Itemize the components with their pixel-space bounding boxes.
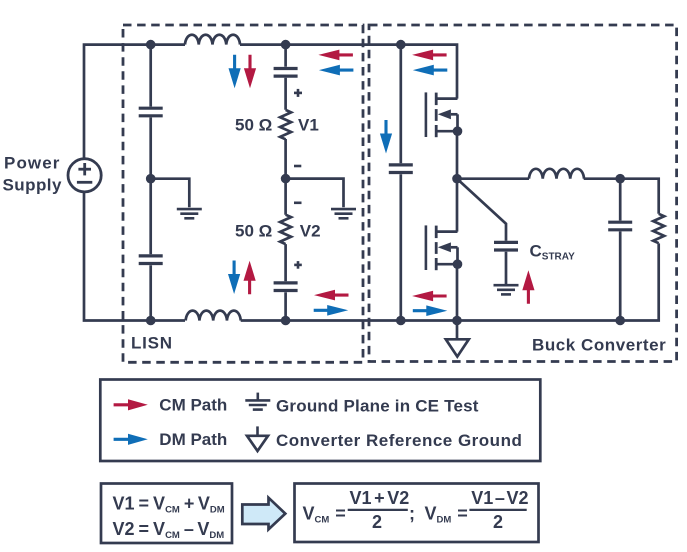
svg-text:V1+V2: V1+V2 (350, 488, 410, 508)
svg-text:Converter Reference Ground: Converter Reference Ground (276, 431, 522, 450)
svg-text:Supply: Supply (3, 176, 62, 195)
svg-text:CM Path: CM Path (159, 395, 227, 414)
svg-text:2: 2 (493, 512, 503, 532)
svg-text:Power: Power (4, 153, 61, 172)
svg-text:;: ; (409, 504, 415, 524)
svg-text:Buck Converter: Buck Converter (532, 335, 666, 354)
svg-text:V2: V2 (300, 222, 321, 241)
svg-text:50 Ω: 50 Ω (235, 116, 272, 135)
svg-text:50 Ω: 50 Ω (235, 222, 272, 241)
svg-text:V1: V1 (298, 116, 319, 135)
svg-text:DM Path: DM Path (159, 430, 227, 449)
svg-text:Ground Plane in CE Test: Ground Plane in CE Test (276, 396, 479, 415)
svg-text:LISN: LISN (131, 334, 173, 353)
svg-text:V1–V2: V1–V2 (471, 488, 528, 508)
svg-text:2: 2 (372, 512, 382, 532)
